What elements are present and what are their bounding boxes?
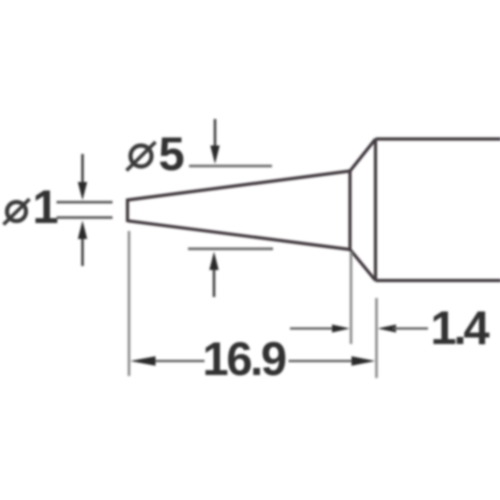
dim 1.4 left arrowhead xyxy=(332,325,350,333)
dia1 bottom extension line xyxy=(57,216,113,219)
cone top edge xyxy=(128,171,351,200)
dia1 symbol circle xyxy=(7,202,26,221)
soldering tip body outline xyxy=(128,139,500,281)
dia1 top arrowhead xyxy=(78,182,87,200)
dia1 top arrow stem xyxy=(81,154,84,185)
dia5 bottom arrow stem xyxy=(213,267,216,297)
dia1 symbol slash xyxy=(4,199,30,225)
flare top edge xyxy=(350,139,376,171)
dia5 symbol circle xyxy=(131,146,152,167)
cone base line xyxy=(348,171,351,250)
cylinder left face xyxy=(374,139,377,281)
dia5 bottom extension line xyxy=(188,248,273,251)
cylinder top edge xyxy=(376,137,500,140)
dim 1.4 right arrowhead xyxy=(378,325,397,333)
dia5 top arrow stem xyxy=(214,119,217,149)
flare bottom edge xyxy=(350,250,376,281)
cone bottom edge xyxy=(128,221,351,250)
dim 1.4 left leader line xyxy=(290,327,334,329)
dim 16.9 left arrowhead xyxy=(130,356,156,366)
dim 16.9 line right segment xyxy=(289,360,356,362)
dia5 symbol slash xyxy=(127,142,156,171)
tip extension line xyxy=(128,231,131,376)
dim 1.4 right leader line xyxy=(393,327,428,329)
dia5 top extension line xyxy=(189,165,272,168)
dia1 top extension line xyxy=(57,201,113,204)
cylinder bottom edge xyxy=(376,279,500,282)
svg-text:16.9: 16.9 xyxy=(203,332,286,385)
tip face xyxy=(126,199,129,223)
dia5 bottom arrowhead xyxy=(209,252,218,271)
svg-text:5: 5 xyxy=(159,127,185,180)
dia1 bottom arrowhead xyxy=(78,221,87,240)
extension line A cone base xyxy=(350,252,353,344)
extension line B cylinder start xyxy=(375,298,378,378)
svg-text:1: 1 xyxy=(33,180,59,233)
svg-text:1.4: 1.4 xyxy=(431,301,490,354)
dia1 bottom arrow stem xyxy=(81,236,84,266)
dia5 top arrowhead xyxy=(210,146,219,165)
dim 16.9 line left segment xyxy=(152,360,205,362)
dim 16.9 right arrowhead xyxy=(352,356,376,366)
